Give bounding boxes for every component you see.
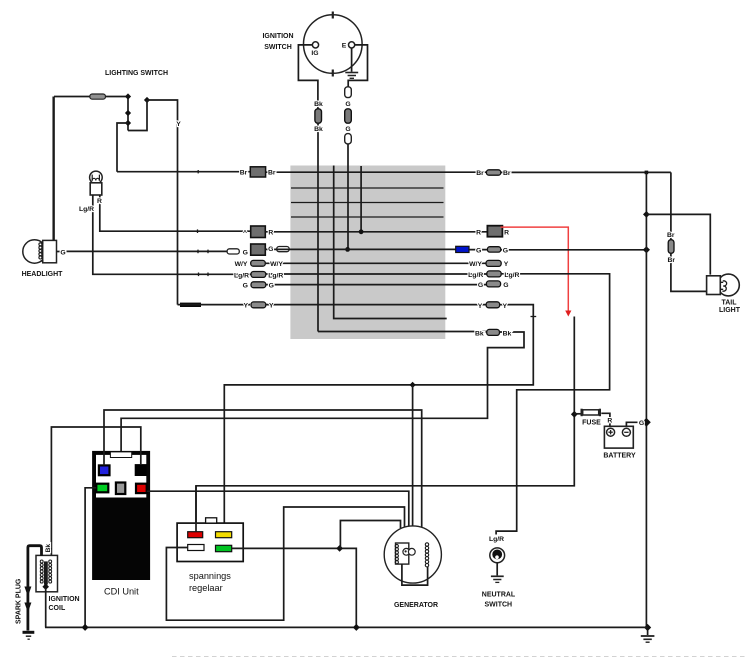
wire fuse stub <box>574 413 582 415</box>
connector G white lower <box>345 134 352 144</box>
svg-text:W/Y: W/Y <box>469 261 482 268</box>
ignition coil <box>36 555 58 591</box>
battery <box>604 426 633 448</box>
svg-text:Y: Y <box>244 303 249 310</box>
connector Bk right <box>487 329 500 335</box>
regelaar label <box>189 571 231 593</box>
junction dot green bus <box>82 624 89 631</box>
junction dot R row <box>359 229 364 234</box>
CDI terminal black <box>135 464 147 476</box>
svg-text:Br: Br <box>503 170 511 177</box>
wire Bk row from ignition <box>318 331 487 333</box>
wire LgR row to neutral switch <box>496 274 609 535</box>
wire tail light Br drop <box>670 172 672 239</box>
wire green row up to generator <box>340 521 400 549</box>
harness gray box <box>290 166 445 340</box>
wire Bk lead into harness <box>317 123 319 331</box>
neutral switch ground <box>491 563 504 583</box>
svg-text:W/Y: W/Y <box>235 261 248 268</box>
switch contact dot 4 <box>144 97 150 103</box>
wire Y junction to generator <box>412 385 414 528</box>
wire G row to right bus <box>501 249 647 251</box>
ignition switch body <box>304 12 363 77</box>
headlight bulb <box>23 240 57 263</box>
terminal E <box>349 42 355 48</box>
wire switch bottom loop <box>128 100 147 131</box>
svg-text:BATTERY: BATTERY <box>603 452 636 459</box>
svg-text:LIGHTING SWITCH: LIGHTING SWITCH <box>105 70 168 77</box>
wire lighting switch to headlight <box>53 97 55 241</box>
svg-text:Lg/R: Lg/R <box>468 272 483 279</box>
junction dot G bus <box>643 246 650 253</box>
svg-text:Lg/R: Lg/R <box>268 272 283 279</box>
wire CDI blue to generator <box>104 410 422 528</box>
svg-text:IGNITION: IGNITION <box>262 33 293 40</box>
connector LgR right <box>487 271 501 277</box>
svg-text:regelaar: regelaar <box>189 583 223 593</box>
svg-text:R: R <box>97 198 102 205</box>
switch contact dot 3 <box>125 120 131 126</box>
wire switch to Br row <box>117 123 128 172</box>
svg-text:W/Y: W/Y <box>270 261 283 268</box>
svg-text:R: R <box>268 230 273 237</box>
tail light label <box>719 300 741 315</box>
junction dot Y generator <box>410 382 416 388</box>
svg-text:Bk: Bk <box>475 330 484 337</box>
svg-text:SWITCH: SWITCH <box>484 601 512 608</box>
harness inner line 3 <box>291 202 444 204</box>
svg-text:Br: Br <box>268 170 276 177</box>
svg-text:TAIL: TAIL <box>721 300 737 307</box>
junction Br bus <box>645 171 649 175</box>
svg-text:GENERATOR: GENERATOR <box>394 602 438 609</box>
svg-text:Lg/R: Lg/R <box>504 272 519 279</box>
svg-text:G: G <box>243 249 248 256</box>
svg-text:IG: IG <box>311 50 318 57</box>
splice tick <box>198 273 200 277</box>
svg-text:G: G <box>60 250 65 257</box>
CDI terminal blue <box>99 465 110 475</box>
wire CDI black to ignition coil <box>51 427 140 559</box>
spark plug ground <box>23 631 35 639</box>
connector LgR left <box>251 272 266 278</box>
svg-text:Lg/R: Lg/R <box>79 206 94 213</box>
svg-text:Bk: Bk <box>45 544 52 553</box>
wire from harness top dead-end branch <box>334 166 447 319</box>
svg-text:Bk: Bk <box>503 330 512 337</box>
svg-text:Y: Y <box>478 303 483 310</box>
wire bus to tail light <box>646 214 710 274</box>
wire CDI green to bus <box>85 488 96 628</box>
switch contact dot 2 <box>125 110 131 116</box>
wire Br row across harness <box>266 171 487 173</box>
CDI terminal green <box>96 484 108 493</box>
connector on feed wire <box>90 94 106 99</box>
svg-text:G: G <box>345 126 350 133</box>
wire IG terminal to Bk lead <box>298 45 318 110</box>
junction dot battery G <box>642 418 651 427</box>
CDI terminal gray <box>116 483 125 495</box>
svg-text:Bk: Bk <box>314 101 323 108</box>
connector WY left <box>251 260 266 266</box>
splice tick <box>197 229 199 233</box>
wire E terminal to G lead <box>348 45 367 87</box>
red battery feed column <box>196 317 574 532</box>
wire pilot bulb left to LgR row <box>93 195 251 274</box>
svg-text:Y: Y <box>504 261 509 268</box>
splice tick Br <box>197 170 199 173</box>
wire Br to tail light <box>671 253 707 291</box>
regelaar terminal white <box>188 545 204 551</box>
connector WY right <box>486 260 501 266</box>
wire fuse to battery plus <box>601 413 610 426</box>
G row white connector left <box>227 249 239 254</box>
svg-text:G: G <box>345 101 350 108</box>
svg-text:FUSE: FUSE <box>582 420 601 427</box>
wire pilot bulb right to R row <box>100 195 251 231</box>
regelaar terminal green <box>216 545 232 551</box>
wire G2 row across harness <box>266 284 487 286</box>
wire headlight feed down <box>52 97 54 241</box>
wire coil to bus <box>45 588 47 627</box>
wire regelaar red to battery feed <box>195 486 197 532</box>
wire Bk row to CDI gray terminal <box>121 332 524 483</box>
connector Br tail <box>668 240 674 254</box>
headlight G stub <box>57 251 60 253</box>
wire regelaar green to generator and bus <box>232 548 357 627</box>
harness inner line 2 <box>291 187 444 189</box>
spark plug arrow 1 <box>24 587 31 597</box>
connector G2 left <box>251 282 266 288</box>
svg-text:Br: Br <box>667 232 675 239</box>
ground at terminal E <box>345 48 358 78</box>
spannings regelaar box <box>177 518 243 562</box>
junction dot bus ground <box>644 624 651 631</box>
svg-text:COIL: COIL <box>49 605 66 612</box>
svg-text:Y: Y <box>503 303 508 310</box>
Y row thick segment <box>180 303 201 307</box>
wire Y row across harness <box>266 304 486 306</box>
harness inner line 4 <box>291 216 444 218</box>
junction dot fuse <box>571 411 578 418</box>
connector G blue <box>456 246 469 252</box>
wire WY row across harness <box>265 262 486 264</box>
junction dot tail G <box>643 211 650 218</box>
wire switch to Y feed <box>147 100 178 305</box>
connector Bk <box>315 109 322 123</box>
CDI unit box <box>92 451 150 580</box>
wire LgR row across harness <box>266 273 487 275</box>
svg-text:^: ^ <box>243 229 247 237</box>
wire regelaar white to generator <box>166 507 404 620</box>
lighting switch contact column <box>127 97 129 131</box>
wire headlight G to harness <box>67 250 228 252</box>
junction dot green row <box>336 545 343 552</box>
connector R left <box>251 226 266 238</box>
faint scan artifact line <box>172 656 746 658</box>
splice tick <box>197 250 199 254</box>
red wire R to fuse column <box>501 227 569 311</box>
ignition coil label <box>49 596 80 612</box>
wire Br row to tail light drop <box>501 171 671 173</box>
regelaar terminal red <box>188 532 203 538</box>
connector Br right <box>486 170 500 175</box>
regelaar terminal yellow <box>216 532 232 538</box>
neutral switch <box>490 548 505 563</box>
svg-text:Br: Br <box>476 170 484 177</box>
junction dot green bus2 <box>353 624 360 631</box>
svg-text:HEADLIGHT: HEADLIGHT <box>22 271 64 278</box>
right bus vertical <box>645 172 647 627</box>
red arrow <box>565 311 571 317</box>
svg-text:CDI Unit: CDI Unit <box>104 587 139 597</box>
spark plug arrow 2 <box>24 603 31 613</box>
svg-text:SWITCH: SWITCH <box>264 44 292 51</box>
svg-text:G: G <box>503 247 508 254</box>
connector G <box>345 109 352 123</box>
wire G lead to G row junction <box>347 144 349 250</box>
svg-text:IGNITION: IGNITION <box>49 596 80 603</box>
wire G row across harness <box>265 248 455 250</box>
svg-text:G: G <box>476 247 481 254</box>
wire battery minus to bus <box>626 422 637 426</box>
connector Y right <box>486 302 500 308</box>
svg-text:LIGHT: LIGHT <box>719 307 741 314</box>
connector G right <box>487 247 500 252</box>
CDI terminal red <box>136 484 147 493</box>
connector G white upper <box>345 87 352 98</box>
connector R right <box>487 226 502 237</box>
svg-text:G: G <box>268 246 273 253</box>
junction dot coil bottom <box>42 583 49 590</box>
svg-text:R: R <box>504 230 509 237</box>
tail light bulb <box>707 274 740 296</box>
connector G2 right <box>486 281 500 287</box>
junction dot G row <box>345 247 350 252</box>
wire Br row left <box>117 171 250 173</box>
terminal IG <box>312 42 318 48</box>
neutral switch label <box>482 591 516 608</box>
svg-text:G: G <box>478 282 483 289</box>
ignition switch label <box>262 33 293 51</box>
svg-text:G: G <box>269 283 274 290</box>
svg-text:Y: Y <box>269 303 274 310</box>
wire G row to connector <box>469 249 487 251</box>
svg-text:G: G <box>639 420 644 427</box>
svg-text:spannings: spannings <box>189 571 231 581</box>
splice tick <box>207 273 209 277</box>
generator <box>384 526 441 585</box>
connector Y left <box>251 302 266 308</box>
pilot bulb <box>90 171 103 195</box>
svg-text:R: R <box>607 418 612 425</box>
connector Br left <box>250 167 265 177</box>
svg-text:G: G <box>503 282 508 289</box>
switch contact dot 1 <box>125 93 131 99</box>
erased tick <box>531 316 537 318</box>
svg-text:Br: Br <box>668 257 676 264</box>
svg-text:Bk: Bk <box>314 126 323 133</box>
svg-text:Y: Y <box>176 121 181 128</box>
svg-text:R: R <box>476 230 481 237</box>
svg-text:E: E <box>342 43 347 50</box>
ground bottom right <box>641 628 655 643</box>
splice tick <box>207 250 209 254</box>
svg-text:G: G <box>243 283 248 290</box>
wire R row across harness <box>265 231 487 233</box>
wire CDI red to generator <box>147 491 409 528</box>
svg-text:Lg/R: Lg/R <box>489 536 504 543</box>
fuse <box>582 409 600 417</box>
wire from harness top to R junction <box>360 166 362 232</box>
wire battery feed to lighting switch <box>54 96 128 98</box>
wire Y row return to regulator <box>224 305 533 532</box>
wire Y row left <box>178 304 251 306</box>
svg-text:Lg/R: Lg/R <box>234 272 249 279</box>
spark plug lead <box>28 546 42 631</box>
svg-text:Br: Br <box>240 170 248 177</box>
svg-text:NEUTRAL: NEUTRAL <box>482 591 516 598</box>
bottom bus wire <box>45 626 648 628</box>
svg-text:SPARK PLUG: SPARK PLUG <box>16 578 23 624</box>
G row white connector 2 <box>277 247 290 252</box>
connector G left <box>251 244 266 255</box>
